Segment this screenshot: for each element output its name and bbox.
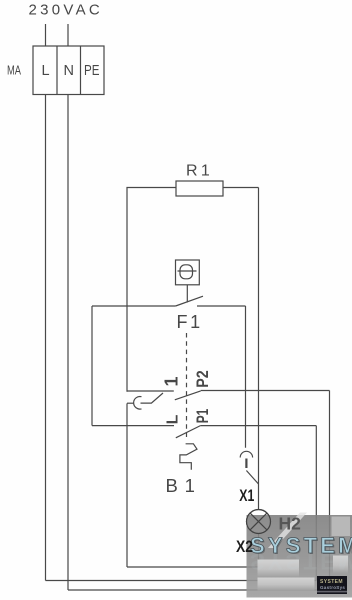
- svg-text:SYSTEM: SYSTEM: [250, 533, 352, 558]
- svg-text:H2: H2: [279, 514, 302, 534]
- svg-text:X2: X2: [236, 538, 253, 556]
- svg-text:GastroSys: GastroSys: [320, 585, 345, 590]
